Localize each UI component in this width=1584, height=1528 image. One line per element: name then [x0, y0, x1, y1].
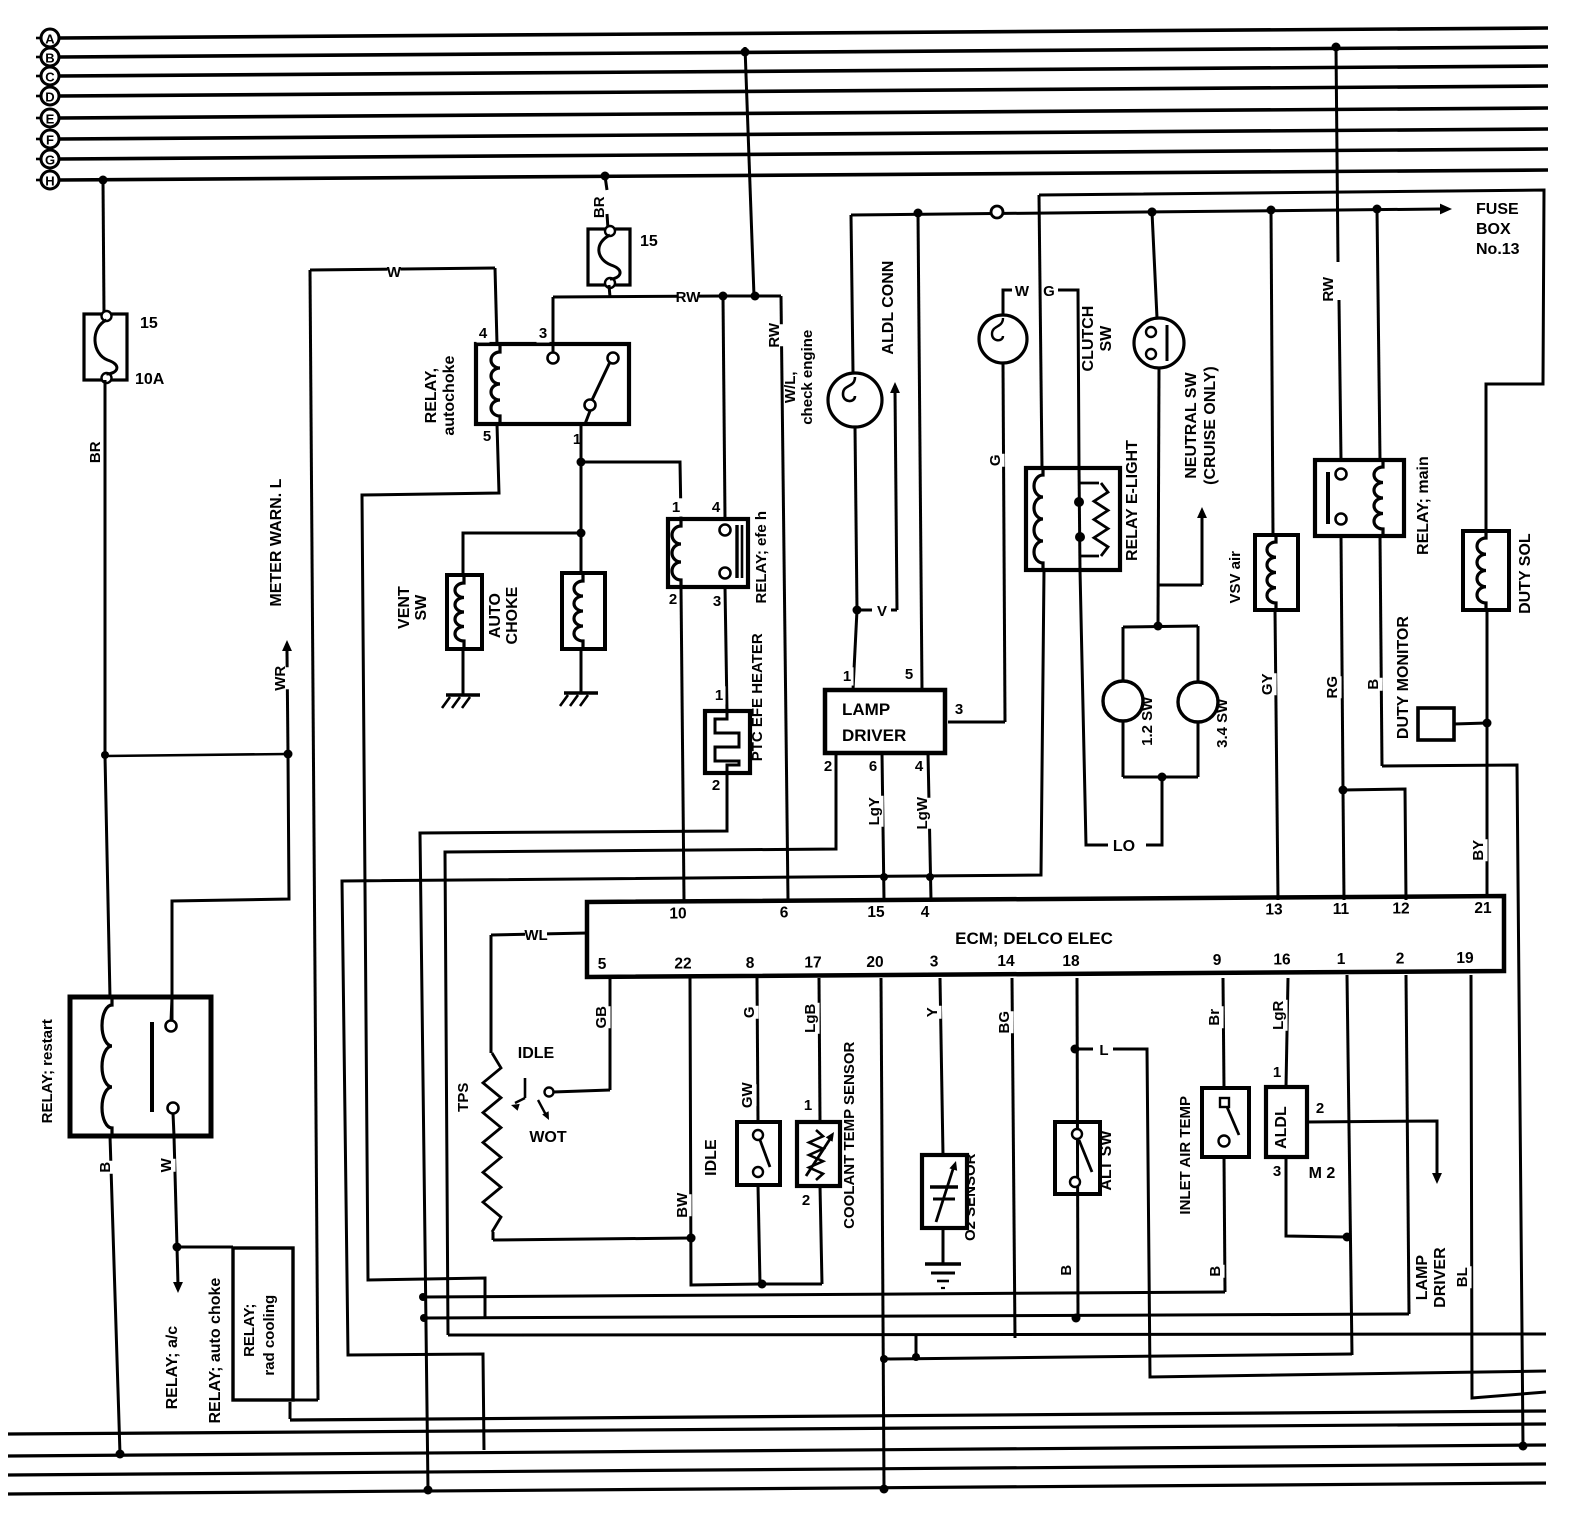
svg-text:D: D — [45, 90, 54, 105]
svg-text:TPS: TPS — [455, 1083, 472, 1112]
svg-text:RELAY; efe h: RELAY; efe h — [753, 511, 770, 604]
svg-text:SW: SW — [1098, 325, 1115, 352]
svg-text:COOLANT TEMP SENSOR: COOLANT TEMP SENSOR — [841, 1041, 858, 1228]
svg-text:F: F — [46, 133, 54, 148]
svg-text:FUSE: FUSE — [1476, 201, 1519, 218]
svg-text:RELAY E-LIGHT: RELAY E-LIGHT — [1124, 440, 1141, 561]
svg-text:3.4 SW: 3.4 SW — [1214, 698, 1231, 748]
svg-text:20: 20 — [866, 954, 883, 971]
svg-text:3: 3 — [930, 954, 939, 971]
svg-text:15: 15 — [867, 904, 885, 921]
svg-text:13: 13 — [1265, 901, 1283, 918]
svg-text:1: 1 — [715, 687, 723, 704]
svg-text:G: G — [741, 1006, 758, 1018]
svg-text:G: G — [1043, 283, 1055, 300]
svg-text:DUTY MONITOR: DUTY MONITOR — [1395, 616, 1412, 739]
svg-text:BOX: BOX — [1476, 221, 1511, 238]
svg-text:B: B — [1058, 1265, 1075, 1276]
svg-text:LgB: LgB — [802, 1004, 819, 1033]
svg-text:2: 2 — [824, 758, 832, 775]
svg-text:RELAY; restart: RELAY; restart — [39, 1019, 56, 1123]
svg-text:RELAY; auto choke: RELAY; auto choke — [207, 1278, 224, 1424]
svg-text:3: 3 — [955, 701, 963, 718]
svg-text:V: V — [877, 603, 887, 620]
svg-text:2: 2 — [1396, 951, 1405, 968]
svg-text:B: B — [1365, 679, 1382, 690]
svg-text:DRIVER: DRIVER — [842, 726, 906, 745]
svg-text:15: 15 — [140, 315, 158, 332]
svg-text:4: 4 — [712, 499, 721, 516]
svg-text:22: 22 — [674, 955, 691, 972]
svg-text:GB: GB — [593, 1006, 610, 1029]
svg-text:(CRUISE ONLY): (CRUISE ONLY) — [1202, 366, 1219, 485]
svg-text:RW: RW — [1320, 276, 1337, 302]
svg-text:WOT: WOT — [529, 1129, 567, 1146]
svg-text:19: 19 — [1456, 950, 1474, 967]
svg-text:1: 1 — [804, 1097, 812, 1114]
svg-text:GW: GW — [739, 1081, 756, 1108]
svg-text:9: 9 — [1213, 952, 1222, 969]
svg-text:12: 12 — [1392, 901, 1409, 918]
svg-text:IDLE: IDLE — [703, 1139, 720, 1176]
svg-text:B: B — [45, 51, 54, 66]
svg-text:1: 1 — [1337, 951, 1346, 968]
svg-text:10A: 10A — [135, 371, 165, 388]
svg-text:LAMP: LAMP — [842, 700, 890, 719]
svg-text:BY: BY — [1470, 840, 1487, 861]
svg-text:ALT SW: ALT SW — [1098, 1130, 1115, 1191]
svg-text:LgW: LgW — [914, 796, 931, 829]
svg-text:BR: BR — [591, 196, 608, 218]
svg-text:5: 5 — [598, 956, 607, 973]
svg-text:1.2 SW: 1.2 SW — [1139, 696, 1156, 746]
svg-text:10: 10 — [669, 905, 686, 922]
svg-text:INLET AIR TEMP: INLET AIR TEMP — [1177, 1096, 1194, 1215]
svg-text:WL: WL — [524, 927, 547, 944]
svg-text:W: W — [158, 1157, 175, 1172]
svg-text:1: 1 — [672, 499, 680, 516]
svg-text:3: 3 — [1273, 1163, 1281, 1180]
svg-text:RELAY; main: RELAY; main — [1415, 456, 1432, 555]
svg-text:C: C — [45, 70, 55, 85]
svg-text:4: 4 — [915, 758, 924, 775]
svg-text:2: 2 — [712, 777, 720, 794]
svg-text:8: 8 — [746, 955, 755, 972]
svg-text:L: L — [1099, 1042, 1108, 1059]
svg-text:Br: Br — [1206, 1009, 1223, 1026]
svg-text:CHOKE: CHOKE — [504, 586, 521, 644]
svg-text:RELAY;: RELAY; — [241, 1304, 258, 1357]
svg-text:1: 1 — [843, 668, 851, 685]
svg-text:RELAY; a/c: RELAY; a/c — [164, 1326, 181, 1410]
svg-text:2: 2 — [669, 591, 677, 608]
svg-text:PTC EFE HEATER: PTC EFE HEATER — [749, 633, 766, 761]
svg-text:H: H — [45, 174, 54, 189]
svg-text:IDLE: IDLE — [518, 1045, 555, 1062]
svg-text:CLUTCH: CLUTCH — [1080, 306, 1097, 372]
svg-text:B: B — [1207, 1266, 1224, 1277]
svg-text:DRIVER: DRIVER — [1432, 1247, 1449, 1308]
svg-text:rad cooling: rad cooling — [261, 1295, 278, 1376]
svg-text:WR: WR — [272, 666, 289, 691]
svg-text:G: G — [45, 153, 55, 168]
svg-text:BL: BL — [1454, 1267, 1471, 1287]
svg-text:RW: RW — [766, 322, 783, 348]
svg-text:G: G — [987, 454, 1004, 466]
svg-text:BW: BW — [674, 1192, 691, 1218]
svg-text:M 2: M 2 — [1309, 1165, 1336, 1182]
svg-text:ALDL CONN: ALDL CONN — [880, 261, 897, 355]
svg-text:B: B — [97, 1162, 114, 1173]
svg-text:W/L,: W/L, — [782, 371, 799, 403]
svg-text:5: 5 — [483, 428, 491, 445]
svg-text:21: 21 — [1474, 900, 1492, 917]
svg-text:14: 14 — [997, 953, 1015, 970]
svg-text:6: 6 — [780, 905, 789, 922]
svg-text:RW: RW — [676, 289, 702, 306]
svg-text:3: 3 — [539, 325, 547, 342]
svg-text:NEUTRAL SW: NEUTRAL SW — [1183, 372, 1200, 479]
svg-text:autochoke: autochoke — [441, 355, 458, 435]
svg-text:BR: BR — [87, 441, 104, 463]
svg-text:GY: GY — [1259, 673, 1276, 695]
svg-text:BG: BG — [996, 1011, 1013, 1034]
svg-text:W: W — [387, 264, 402, 281]
svg-text:4: 4 — [479, 325, 488, 342]
svg-text:LO: LO — [1113, 838, 1135, 855]
svg-text:15: 15 — [640, 233, 658, 250]
svg-text:RELAY,: RELAY, — [423, 368, 440, 423]
svg-text:VENT: VENT — [396, 586, 413, 629]
svg-text:O2 SENSOR: O2 SENSOR — [962, 1153, 979, 1241]
svg-text:E: E — [46, 112, 55, 127]
svg-text:2: 2 — [1316, 1100, 1324, 1117]
svg-text:1: 1 — [1273, 1064, 1281, 1081]
svg-text:6: 6 — [869, 758, 877, 775]
svg-text:5: 5 — [905, 666, 913, 683]
svg-text:ECM; DELCO ELEC: ECM; DELCO ELEC — [955, 929, 1113, 948]
svg-text:LgY: LgY — [866, 797, 883, 825]
svg-text:11: 11 — [1333, 901, 1350, 918]
svg-text:LAMP: LAMP — [1414, 1255, 1431, 1301]
svg-text:W: W — [1015, 283, 1030, 300]
svg-text:16: 16 — [1273, 951, 1291, 968]
svg-text:4: 4 — [921, 904, 930, 921]
svg-text:VSV air: VSV air — [1227, 551, 1244, 604]
svg-text:Y: Y — [924, 1007, 941, 1017]
svg-text:18: 18 — [1062, 953, 1080, 970]
svg-text:3: 3 — [713, 593, 721, 610]
svg-text:LgR: LgR — [1270, 1001, 1287, 1030]
svg-text:No.13: No.13 — [1476, 241, 1520, 258]
svg-text:AUTO: AUTO — [487, 593, 504, 638]
svg-text:ALDL: ALDL — [1273, 1106, 1290, 1149]
svg-text:check engine: check engine — [799, 330, 816, 425]
svg-text:2: 2 — [802, 1192, 810, 1209]
svg-text:METER WARN. L: METER WARN. L — [268, 478, 285, 606]
svg-text:RG: RG — [1324, 676, 1341, 699]
svg-text:A: A — [45, 32, 55, 47]
svg-text:17: 17 — [804, 954, 821, 971]
svg-text:DUTY SOL: DUTY SOL — [1517, 533, 1534, 614]
svg-text:SW: SW — [413, 594, 430, 621]
